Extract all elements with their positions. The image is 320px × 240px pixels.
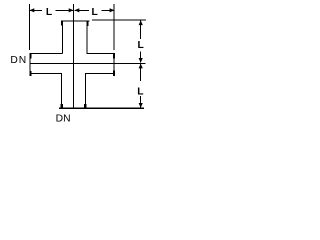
horizontal arm top edge left segment xyxy=(29,53,62,54)
top arm right edge xyxy=(86,25,87,53)
extension line left (top dim) xyxy=(29,4,30,50)
right dimension line segment D xyxy=(140,96,141,108)
bottom arm end band right xyxy=(84,104,87,108)
top dimension line segment 4 xyxy=(102,10,115,11)
arrowhead center-left (points right) xyxy=(69,8,74,12)
bottom arm end band left xyxy=(61,104,64,108)
svg-text:L: L xyxy=(138,40,144,51)
arrowhead up (right dim top) xyxy=(139,20,143,25)
left arm end face xyxy=(29,53,30,76)
vertical centerline xyxy=(73,4,74,108)
right arm end band top xyxy=(113,53,115,59)
top arm left edge xyxy=(62,25,63,53)
horizontal arm top edge right segment xyxy=(86,53,114,54)
bottom arm right edge xyxy=(85,74,86,105)
bottom arm left edge xyxy=(61,74,62,105)
top arm end band left xyxy=(61,20,63,25)
horizontal arm bottom edge left segment xyxy=(29,73,62,74)
extension line right (top dim) xyxy=(114,4,115,50)
top arm end edge xyxy=(61,20,90,21)
svg-text:L: L xyxy=(92,7,98,18)
arrowhead left (points left) xyxy=(30,8,35,12)
right dimension line segment A xyxy=(140,20,141,39)
right arm end band bottom xyxy=(113,71,115,76)
svg-text:D: D xyxy=(56,114,63,125)
right dimension line segment B xyxy=(140,52,141,63)
arrowhead down (right dim to centerline) xyxy=(139,58,143,63)
arrowhead center-right (points left) xyxy=(75,8,80,12)
top dimension line segment 1 xyxy=(29,10,42,11)
svg-text:D: D xyxy=(10,55,17,66)
top dimension line segment 2 xyxy=(56,10,74,11)
svg-text:N: N xyxy=(19,55,26,66)
right arm end face xyxy=(114,53,115,76)
top arm end band right xyxy=(86,20,88,26)
svg-text:N: N xyxy=(63,114,70,125)
top dimension line segment 3 xyxy=(75,10,90,11)
arrowhead right (points right) xyxy=(110,8,115,12)
left arm end band bottom xyxy=(29,71,31,76)
svg-text:L: L xyxy=(137,86,143,97)
svg-text:L: L xyxy=(46,7,52,18)
arrowhead up (right dim below centerline) xyxy=(139,64,143,69)
arrowhead down (right dim bottom) xyxy=(139,103,143,108)
horizontal centerline xyxy=(30,63,146,64)
horizontal arm bottom edge right segment xyxy=(85,73,115,74)
left arm end band top xyxy=(29,53,31,58)
bottom arm end edge + bottom extension line (right dim) xyxy=(59,108,144,109)
top-right extension line (right dim) xyxy=(92,19,146,20)
right dimension line segment C xyxy=(140,64,141,81)
